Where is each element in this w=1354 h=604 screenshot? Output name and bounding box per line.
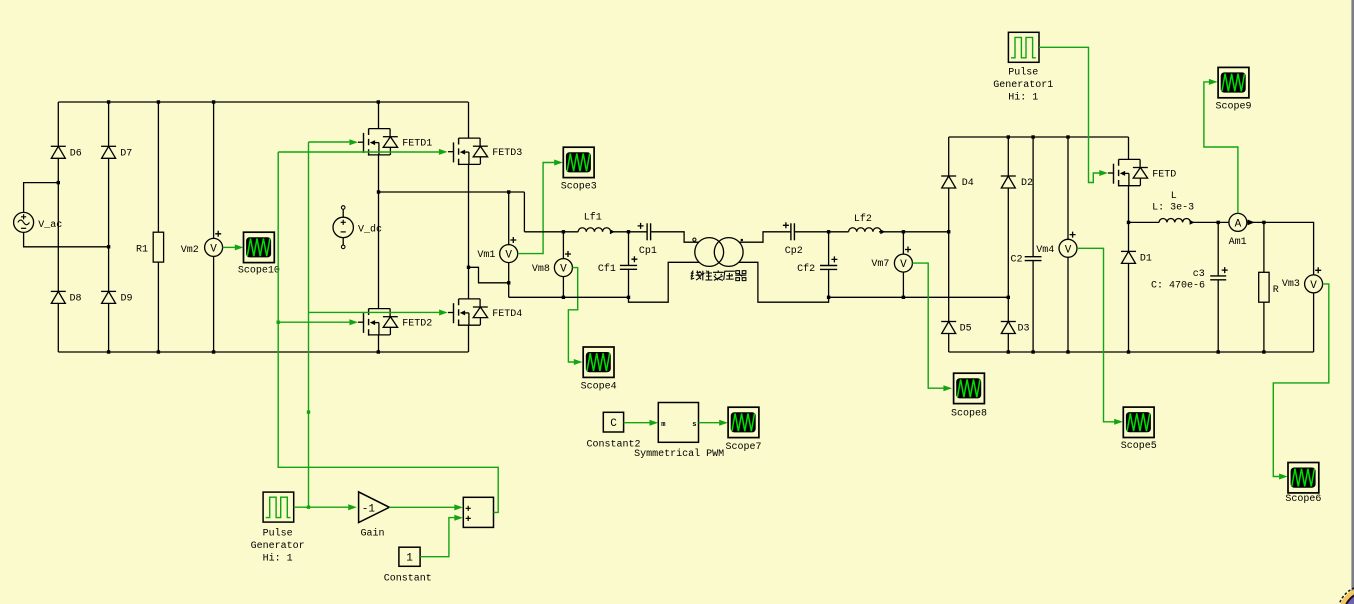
wire mid rail bbox=[379, 191, 525, 193]
svg-text:FETD4: FETD4 bbox=[492, 309, 522, 320]
label Am1 bbox=[1229, 237, 1247, 248]
wire FETD4 source bbox=[468, 325, 470, 352]
wire V_ac top bbox=[24, 183, 59, 213]
node bbox=[1127, 221, 1130, 224]
svg-text:Pulse: Pulse bbox=[1008, 66, 1038, 78]
arrowhead bbox=[454, 515, 463, 521]
wire bottom rail right bbox=[829, 296, 1009, 298]
wire R top bbox=[1263, 222, 1265, 272]
label c3 value bbox=[1151, 280, 1205, 291]
plus mark Vm8 bbox=[565, 251, 571, 257]
arrowhead bbox=[235, 244, 244, 250]
node bbox=[1031, 350, 1034, 353]
svg-text:C2: C2 bbox=[1011, 255, 1023, 266]
pulse generator Pulse Generator1 bbox=[993, 32, 1053, 103]
svg-text:R: R bbox=[1273, 285, 1279, 296]
resistor R bbox=[1259, 272, 1279, 302]
svg-text:Pulse: Pulse bbox=[263, 527, 293, 539]
svg-text:m: m bbox=[661, 421, 665, 429]
svg-text:c3: c3 bbox=[1193, 269, 1205, 280]
svg-text:Cp2: Cp2 bbox=[785, 246, 803, 257]
node bbox=[157, 350, 160, 353]
svg-text:Lf2: Lf2 bbox=[854, 213, 872, 225]
wire top bus left bbox=[58, 101, 468, 103]
arrowhead bbox=[1099, 170, 1108, 176]
wire bbox=[1190, 221, 1229, 223]
wire bbox=[1129, 221, 1160, 223]
svg-text:Constant2: Constant2 bbox=[586, 439, 640, 450]
gain block Gain (-1) bbox=[359, 492, 390, 539]
MOSFET FETD bbox=[1108, 159, 1176, 186]
sum block bbox=[463, 497, 493, 527]
wire bbox=[523, 192, 525, 232]
svg-text:Am1: Am1 bbox=[1229, 237, 1247, 248]
svg-text:D4: D4 bbox=[962, 178, 974, 189]
svg-text:FETD2: FETD2 bbox=[402, 319, 432, 330]
node bbox=[377, 190, 380, 193]
wire bbox=[213, 256, 215, 352]
wire Vm8 top bbox=[562, 232, 564, 259]
voltmeter Vm3 bbox=[1305, 275, 1323, 293]
wire bbox=[1007, 334, 1009, 353]
svg-text:Scope5: Scope5 bbox=[1121, 441, 1157, 452]
node bbox=[627, 296, 630, 299]
wire signal Am1 to Scope9 bbox=[1204, 82, 1238, 214]
voltmeter Vm1 bbox=[500, 245, 518, 263]
node bbox=[1262, 221, 1265, 224]
svg-text:L: 3e-3: L: 3e-3 bbox=[1152, 203, 1194, 214]
svg-text:V: V bbox=[210, 243, 217, 255]
node bbox=[902, 296, 905, 299]
diode D2 bbox=[1001, 176, 1033, 189]
svg-text:Vm2: Vm2 bbox=[181, 245, 199, 256]
node bbox=[107, 245, 110, 248]
svg-text:C: 470e-6: C: 470e-6 bbox=[1151, 280, 1205, 291]
node bbox=[1127, 350, 1130, 353]
constant block Constant2 (C) bbox=[586, 412, 640, 450]
wire rail to transformer bbox=[651, 232, 699, 242]
arrowhead bbox=[348, 504, 357, 510]
transformer 线性变压器 primary winding bbox=[695, 238, 724, 267]
wire C2 bottom bbox=[1032, 261, 1034, 352]
wire c3 bottom bbox=[1217, 280, 1219, 352]
svg-text:Scope3: Scope3 bbox=[561, 181, 597, 192]
wire bbox=[108, 304, 110, 353]
svg-text:Symmetrical PWM: Symmetrical PWM bbox=[634, 448, 724, 460]
wire rail bbox=[524, 231, 578, 233]
svg-text:D8: D8 bbox=[70, 294, 82, 305]
wire bbox=[213, 102, 215, 238]
label Vm1 bbox=[477, 250, 495, 261]
wire R bottom bbox=[1263, 302, 1265, 352]
wire bbox=[157, 262, 159, 352]
inductor Lf1 bbox=[578, 212, 615, 235]
arrowhead bbox=[349, 319, 358, 325]
node bbox=[1066, 350, 1069, 353]
svg-text:Scope10: Scope10 bbox=[238, 266, 280, 277]
wire bbox=[57, 158, 59, 291]
diode D6 bbox=[51, 146, 82, 159]
label Vm4 bbox=[1036, 245, 1054, 256]
svg-text:FETD1: FETD1 bbox=[402, 139, 432, 150]
wire Vm1 bottom bbox=[508, 263, 510, 298]
wire signal Vm1 to Scope3 bbox=[518, 163, 555, 254]
wire signal Vm3 to Scope6 bbox=[1273, 284, 1329, 477]
node bbox=[157, 100, 160, 103]
arrowhead bbox=[349, 139, 358, 145]
capacitor C2 bbox=[1025, 257, 1042, 261]
svg-text:FETD3: FETD3 bbox=[492, 148, 522, 159]
wire Cf1 top bbox=[628, 232, 630, 266]
wire Cf2 bottom bbox=[828, 269, 830, 297]
node bbox=[507, 190, 510, 193]
diode D3 bbox=[1001, 322, 1030, 335]
wire to transformer bottom bbox=[629, 262, 699, 302]
polarity mark secondary bbox=[741, 239, 743, 241]
arrowhead bbox=[439, 149, 448, 155]
svg-text:Vm1: Vm1 bbox=[477, 250, 495, 261]
label C2 bbox=[1011, 255, 1023, 266]
wire rail bbox=[611, 231, 647, 233]
svg-text:C: C bbox=[610, 418, 617, 430]
label Vm8 bbox=[532, 264, 550, 275]
node bbox=[507, 281, 510, 284]
svg-text:D5: D5 bbox=[960, 324, 972, 335]
svg-text:Gain: Gain bbox=[360, 527, 384, 539]
node green junction bbox=[307, 506, 310, 509]
node bbox=[827, 230, 830, 233]
node bbox=[902, 230, 905, 233]
node bbox=[1217, 350, 1220, 353]
inductor Lf2 bbox=[849, 213, 886, 234]
label Vm2 bbox=[181, 245, 199, 256]
wire bbox=[108, 158, 110, 291]
svg-text:-1: -1 bbox=[362, 503, 376, 515]
wire FETD3-FETD4 leg bbox=[468, 164, 470, 299]
scope Scope10 bbox=[238, 232, 280, 277]
svg-text:FETD: FETD bbox=[1152, 170, 1176, 181]
node bbox=[1066, 135, 1069, 138]
svg-text:V: V bbox=[505, 250, 512, 262]
svg-text:Hi: 1: Hi: 1 bbox=[263, 552, 293, 564]
wire top bus right bbox=[949, 136, 1129, 138]
svg-text:1: 1 bbox=[406, 552, 413, 564]
diode D7 bbox=[101, 146, 132, 159]
wire FETD1-FETD2 leg bbox=[378, 155, 380, 309]
wire FETD2 source bbox=[378, 335, 380, 352]
transformer secondary winding bbox=[714, 238, 743, 267]
svg-text:Generator: Generator bbox=[251, 541, 305, 552]
svg-text:Scope9: Scope9 bbox=[1215, 102, 1251, 113]
wire signal to FETD4 gate bbox=[309, 311, 440, 313]
svg-text:s: s bbox=[692, 421, 696, 429]
window edge strip bbox=[1351, 0, 1354, 604]
wire V_ac bottom bbox=[24, 232, 109, 246]
svg-text:D2: D2 bbox=[1021, 178, 1033, 189]
MOSFET FETD2 bbox=[358, 309, 432, 336]
svg-text:V_dc: V_dc bbox=[358, 224, 382, 236]
wire Cf2 top bbox=[828, 232, 830, 266]
svg-text:Vm7: Vm7 bbox=[871, 259, 889, 270]
arrowhead bbox=[554, 160, 563, 166]
wire bbox=[1007, 137, 1009, 176]
arrowhead bbox=[1279, 474, 1288, 480]
svg-text:Constant: Constant bbox=[384, 573, 432, 584]
wire signal PWM to Scope7 bbox=[699, 422, 720, 424]
wire bbox=[948, 334, 950, 353]
svg-text:Scope6: Scope6 bbox=[1285, 494, 1321, 505]
svg-text:Cp1: Cp1 bbox=[639, 246, 657, 257]
voltmeter Vm2 bbox=[205, 238, 223, 256]
wire bbox=[157, 102, 159, 232]
plus mark Vm2 bbox=[215, 231, 221, 237]
scope Scope5 bbox=[1121, 407, 1157, 452]
wire Vm7 bottom bbox=[902, 272, 904, 297]
wire c3 top bbox=[1217, 222, 1219, 276]
label c3 bbox=[1193, 269, 1205, 280]
arrowhead bbox=[439, 310, 448, 316]
corner logo bbox=[1338, 586, 1354, 604]
svg-text:Cf2: Cf2 bbox=[797, 263, 815, 275]
wire bbox=[108, 102, 110, 146]
node green joint bbox=[307, 410, 310, 413]
diode D1 bbox=[1121, 251, 1152, 264]
label L value bbox=[1152, 203, 1194, 214]
capacitor c3 bbox=[1210, 267, 1228, 280]
arrowhead bbox=[574, 359, 583, 365]
scope Scope3 bbox=[561, 147, 597, 192]
diode D5 bbox=[941, 322, 971, 335]
label Vm3 bbox=[1282, 279, 1300, 290]
node bbox=[1007, 135, 1010, 138]
svg-text:V_ac: V_ac bbox=[38, 220, 62, 231]
scope Scope9 bbox=[1215, 67, 1251, 112]
wire signal Constant2 to PWM bbox=[624, 422, 650, 424]
svg-text:Hi: 1: Hi: 1 bbox=[1008, 91, 1038, 103]
polarity mark primary bbox=[693, 238, 696, 241]
wire rail to bridge bbox=[879, 231, 949, 233]
wire Vm3 bottom bbox=[1313, 293, 1315, 352]
wire signal pulse to gain bbox=[294, 506, 349, 508]
wire Vm4 bottom bbox=[1067, 257, 1069, 352]
constant block Constant (1) bbox=[384, 547, 432, 584]
voltmeter Vm7 bbox=[894, 254, 912, 272]
wire signal gain to sum bbox=[389, 506, 454, 508]
node bbox=[107, 350, 110, 353]
arrowhead current direction Am1 bbox=[1248, 220, 1255, 226]
wire signal gate FETD bbox=[1039, 47, 1100, 182]
svg-text:V: V bbox=[560, 264, 567, 276]
node bbox=[377, 350, 380, 353]
label L bbox=[1171, 191, 1177, 202]
capacitor Cp1 bbox=[638, 223, 657, 257]
MOSFET FETD1 bbox=[358, 129, 432, 156]
node bbox=[1007, 350, 1010, 353]
node bbox=[107, 100, 110, 103]
plus mark Vm4 bbox=[1070, 232, 1076, 238]
MOSFET FETD4 bbox=[448, 299, 522, 326]
svg-text:D1: D1 bbox=[1140, 254, 1152, 265]
voltage source V_dc bbox=[333, 206, 382, 249]
scope Scope6 bbox=[1285, 463, 1321, 506]
arrowhead bbox=[454, 504, 463, 510]
wire transformer to Cp2 bbox=[739, 232, 791, 242]
svg-text:V: V bbox=[1065, 244, 1072, 256]
wire bbox=[57, 304, 59, 353]
wire bottom rail bbox=[509, 296, 629, 298]
wire FETD source bbox=[1128, 186, 1130, 223]
capacitor Cp2 bbox=[783, 222, 803, 256]
svg-text:Vm8: Vm8 bbox=[532, 264, 550, 275]
scope Scope4 bbox=[581, 347, 617, 393]
wire D1 top bbox=[1128, 222, 1130, 251]
arrowhead bbox=[943, 385, 952, 391]
label transformer (Chinese) bbox=[691, 270, 747, 280]
wire Cf1 bottom bbox=[628, 269, 630, 297]
node bbox=[377, 100, 380, 103]
wire C2 top bbox=[1032, 137, 1034, 256]
node bbox=[1031, 135, 1034, 138]
ammeter Am1 bbox=[1229, 213, 1247, 231]
wire Vm8 bottom bbox=[562, 277, 564, 298]
wire signal Vm2 to Scope10 bbox=[223, 246, 236, 248]
svg-text:D3: D3 bbox=[1018, 324, 1030, 335]
wire signal to FETD1 gate bbox=[309, 141, 350, 143]
svg-text:Scope8: Scope8 bbox=[951, 408, 987, 419]
pulse generator Pulse Generator bbox=[251, 492, 305, 564]
wire bbox=[1007, 188, 1009, 322]
block Symmetrical PWM bbox=[634, 403, 724, 460]
svg-text:Scope7: Scope7 bbox=[725, 442, 761, 453]
svg-text:Vm4: Vm4 bbox=[1036, 245, 1054, 256]
wire signal sum out riser 2 bbox=[278, 152, 498, 512]
svg-text:D7: D7 bbox=[120, 149, 132, 160]
svg-text:Vm3: Vm3 bbox=[1282, 279, 1300, 290]
wire signal gate riser 1 bbox=[308, 142, 310, 507]
svg-text:L: L bbox=[1171, 191, 1177, 202]
wire bbox=[948, 188, 950, 322]
node bbox=[562, 296, 565, 299]
node bbox=[1007, 296, 1010, 299]
wire signal to FETD3 gate bbox=[278, 151, 439, 153]
node bbox=[827, 296, 830, 299]
wire signal constant to sum bbox=[420, 518, 454, 557]
scope Scope7 bbox=[725, 407, 761, 453]
wire bottom bus right bbox=[949, 351, 1314, 353]
svg-text:A: A bbox=[1235, 218, 1242, 230]
svg-text:D9: D9 bbox=[121, 294, 133, 305]
plus mark Vm1 bbox=[510, 237, 516, 243]
wire transformer bottom right bbox=[739, 262, 829, 302]
node bbox=[1217, 221, 1220, 224]
label Vm7 bbox=[871, 259, 889, 270]
svg-text:Scope4: Scope4 bbox=[581, 382, 617, 393]
wire signal to FETD2 gate bbox=[278, 321, 349, 323]
svg-text:V: V bbox=[900, 259, 907, 271]
diode D8 bbox=[51, 291, 82, 304]
wire Vm4 top bbox=[1067, 137, 1069, 239]
arrowhead bbox=[1114, 419, 1123, 425]
wire bridge out neg bbox=[469, 267, 509, 283]
svg-text:Lf1: Lf1 bbox=[584, 212, 602, 224]
resistor R1 bbox=[136, 232, 164, 262]
plus mark Vm7 bbox=[905, 247, 911, 253]
wire FETD3 drain bbox=[468, 102, 470, 138]
node bbox=[627, 230, 630, 233]
scope Scope8 bbox=[951, 373, 987, 419]
wire bbox=[948, 137, 950, 176]
diode D4 bbox=[941, 176, 974, 189]
MOSFET FETD3 bbox=[448, 138, 522, 165]
node bbox=[562, 230, 565, 233]
inductor L bbox=[1159, 218, 1195, 224]
wire to Vm3 bbox=[1247, 222, 1314, 275]
svg-text:Cf1: Cf1 bbox=[598, 263, 616, 275]
wire signal Vm8 to Scope4 bbox=[568, 268, 577, 362]
capacitor Cf1 bbox=[598, 256, 638, 275]
wire signal Vm7 to Scope8 bbox=[912, 263, 943, 388]
capacitor Cf2 bbox=[797, 256, 837, 275]
svg-text:D6: D6 bbox=[70, 149, 82, 160]
node bbox=[212, 350, 215, 353]
diode D9 bbox=[101, 291, 132, 304]
plus mark Vm3 bbox=[1315, 267, 1321, 273]
voltmeter Vm4 bbox=[1059, 239, 1077, 257]
wire Vm1 top bbox=[508, 192, 510, 245]
voltage source V_ac bbox=[14, 212, 63, 232]
node bbox=[947, 230, 950, 233]
node bbox=[57, 181, 60, 184]
wire rail bbox=[794, 231, 848, 233]
wire bbox=[57, 102, 59, 146]
wire FETD drain bbox=[1128, 137, 1130, 159]
node bbox=[1262, 350, 1265, 353]
node bbox=[212, 100, 215, 103]
svg-text:V: V bbox=[1310, 280, 1317, 292]
voltmeter Vm8 bbox=[554, 259, 572, 277]
svg-text:R1: R1 bbox=[136, 245, 148, 256]
node bbox=[467, 266, 470, 269]
svg-text:Generator1: Generator1 bbox=[993, 80, 1053, 91]
wire bottom bus left bbox=[58, 351, 468, 353]
node green junction bbox=[277, 321, 280, 324]
arrowhead bbox=[1209, 79, 1218, 85]
arrowhead bbox=[719, 420, 728, 426]
arrowhead bbox=[650, 420, 659, 426]
wire signal Vm4 to Scope5 bbox=[1077, 248, 1115, 421]
wire FETD1 drain bbox=[378, 102, 380, 129]
wire D1 bottom bbox=[1128, 263, 1130, 352]
wire Vm7 top bbox=[902, 232, 904, 254]
